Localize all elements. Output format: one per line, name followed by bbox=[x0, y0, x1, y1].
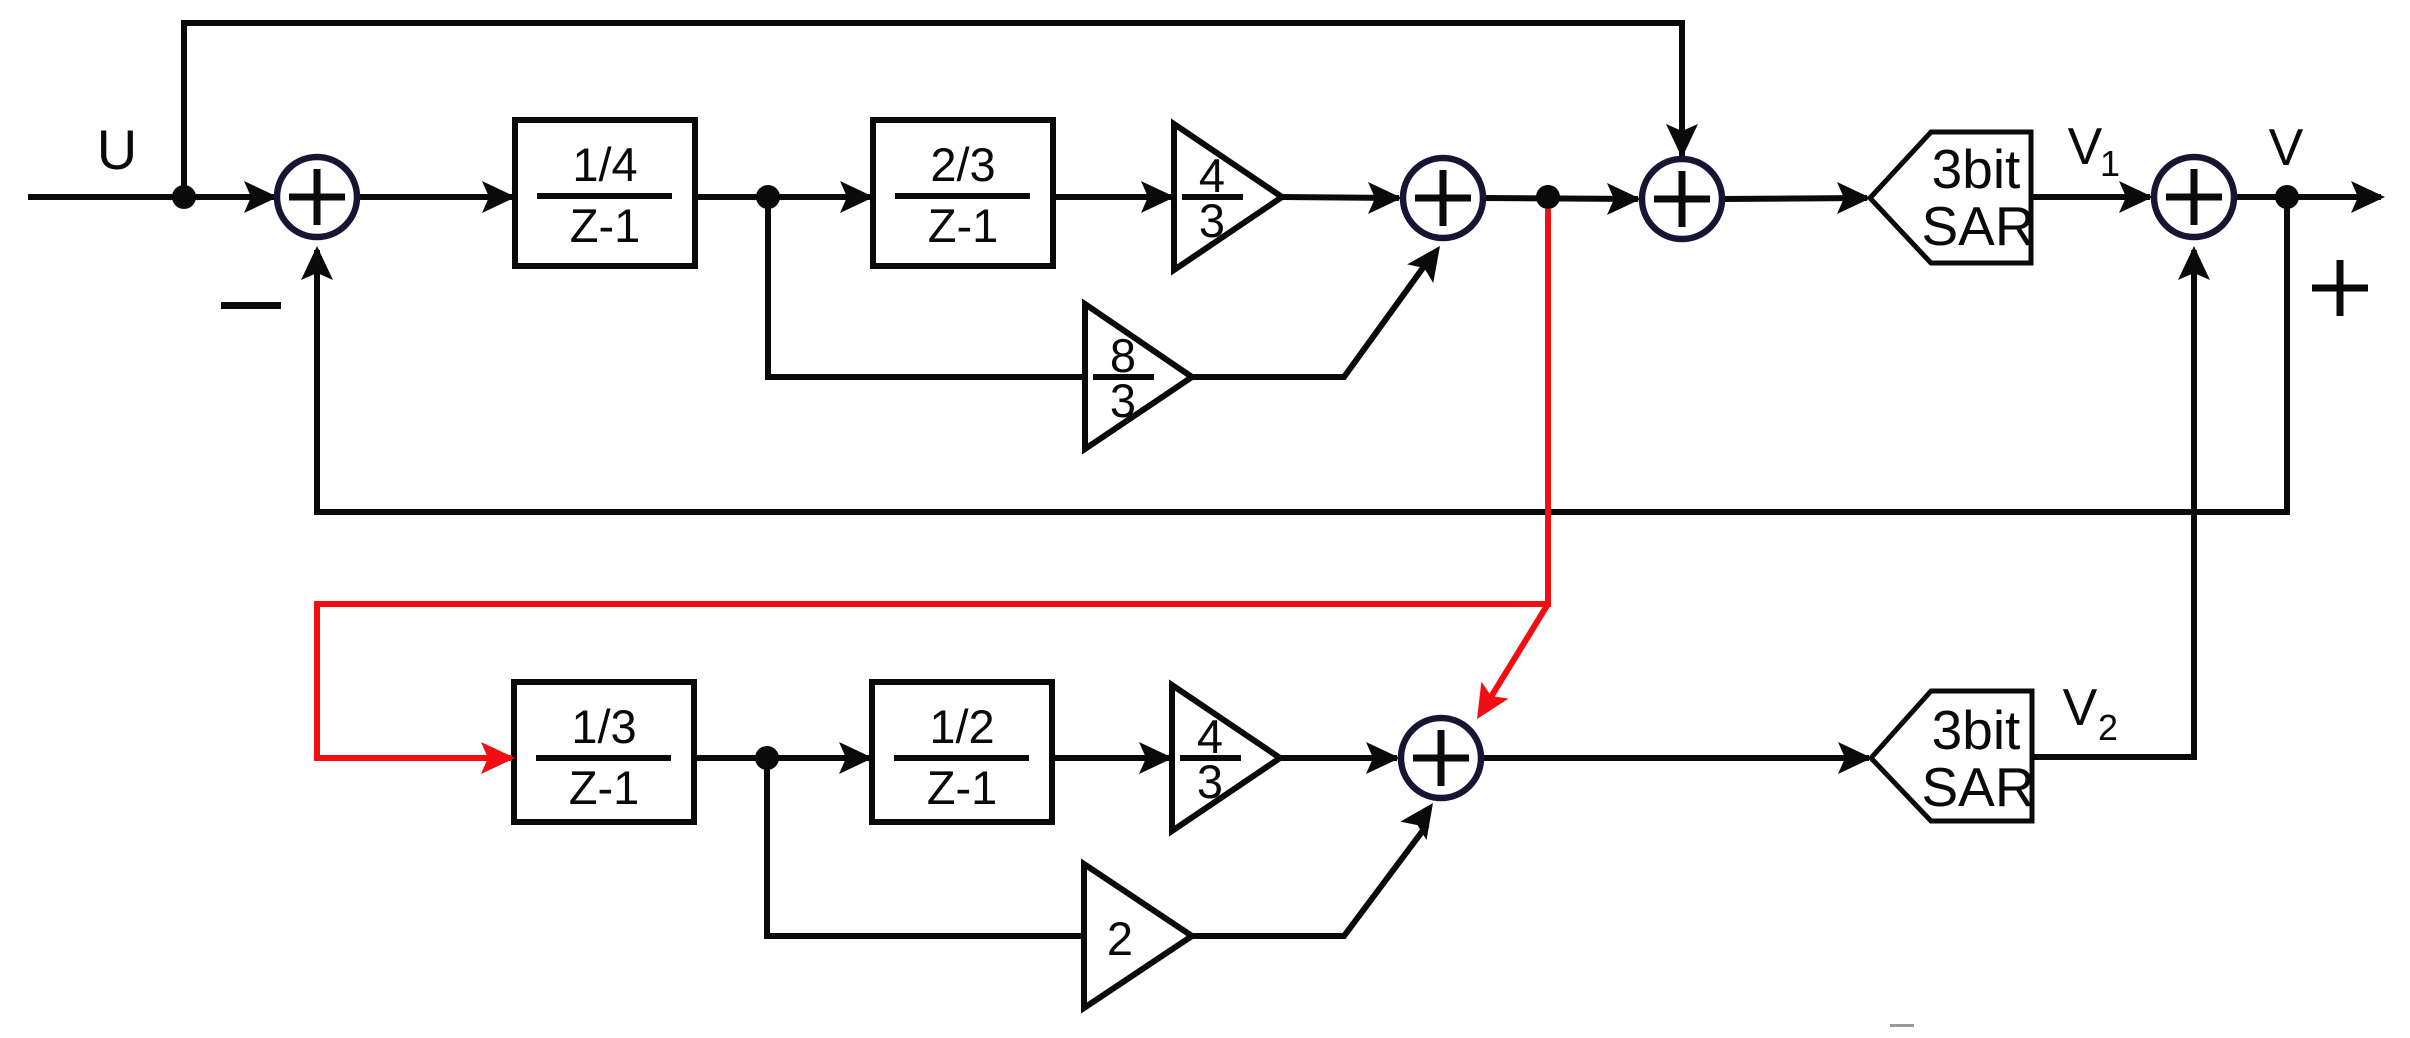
arrowhead into G3 bbox=[1139, 742, 1173, 774]
svg-text:V: V bbox=[2269, 119, 2304, 177]
wire: input U bbox=[28, 194, 279, 200]
arrowhead into Q1 bbox=[1837, 182, 1871, 214]
wire: V output feedback node C to summer S1 bbox=[317, 197, 2287, 512]
summer S1 bbox=[277, 157, 357, 237]
gain G3 4/3 triangle lower bbox=[1172, 685, 1280, 831]
arrowhead into B1 bbox=[482, 181, 516, 213]
svg-text:Z-1: Z-1 bbox=[927, 761, 998, 814]
label V1 bbox=[2068, 118, 2120, 184]
wire: Q1 to summer S4 bbox=[2031, 194, 2150, 200]
wire: S5 to quantizer Q2 bbox=[1480, 755, 1869, 761]
arrowhead red into B3 bbox=[481, 742, 515, 774]
quantizer Q2 3bit SAR bbox=[1871, 691, 2035, 821]
wire: G2 to summer S2 diagonal bbox=[1192, 265, 1425, 377]
summer S5 bbox=[1401, 718, 1481, 798]
svg-text:2: 2 bbox=[1107, 912, 1133, 965]
wire: S1 to block B1 bbox=[356, 194, 512, 200]
svg-text:V: V bbox=[2068, 118, 2103, 176]
block B4 1/2 over Z-1 bbox=[872, 682, 1052, 822]
node D after B3 bbox=[755, 746, 779, 770]
svg-text:Z-1: Z-1 bbox=[928, 199, 999, 252]
wire: B1 to node A to block B2 bbox=[695, 194, 870, 200]
artifact: grey dash bottom bbox=[1890, 1024, 1914, 1027]
node C output V bbox=[2275, 185, 2299, 209]
arrowhead red diagonal into S5 top bbox=[1463, 682, 1508, 728]
arrowhead up into S1 bottom bbox=[301, 246, 333, 280]
arrowhead diagonal into S2 bottom bbox=[1407, 237, 1453, 283]
gain G1 4/3 triangle bbox=[1174, 124, 1282, 270]
arrowhead into S5 bbox=[1366, 742, 1400, 774]
wire: B4 to gain G3 bbox=[1052, 755, 1169, 761]
svg-text:U: U bbox=[97, 118, 137, 181]
svg-text:1/2: 1/2 bbox=[929, 700, 994, 753]
arrowhead down into S3 top bbox=[1666, 124, 1698, 158]
quantizer Q1 3bit SAR bbox=[1870, 132, 2035, 263]
arrowhead into S3 bbox=[1607, 183, 1641, 215]
svg-text:3bit: 3bit bbox=[1932, 138, 2021, 200]
wire: branch node A down to gain G2 bbox=[768, 197, 1082, 377]
label V2 bbox=[2063, 679, 2118, 748]
svg-text:Z-1: Z-1 bbox=[570, 199, 641, 252]
arrowhead into Q2 bbox=[1838, 742, 1872, 774]
wire: top feedforward U to summer S3 bbox=[184, 23, 1682, 197]
svg-text:V: V bbox=[2063, 679, 2098, 737]
node B after S2 bbox=[1536, 185, 1560, 209]
gain G2 8/3 triangle bbox=[1085, 304, 1192, 449]
svg-text:2/3: 2/3 bbox=[930, 138, 995, 191]
arrowhead into S4 bbox=[2119, 181, 2153, 213]
wire: S4 to node C and output arrow bbox=[2233, 194, 2381, 200]
arrowhead up into S4 bottom bbox=[2178, 246, 2210, 280]
svg-text:3bit: 3bit bbox=[1932, 699, 2021, 761]
svg-text:1/3: 1/3 bbox=[571, 700, 636, 753]
svg-text:2: 2 bbox=[2098, 707, 2118, 748]
wire: S3 to quantizer Q1 bbox=[1721, 198, 1867, 199]
wire: B2 to gain G1 bbox=[1053, 194, 1171, 200]
arrowhead into B2 bbox=[840, 181, 874, 213]
svg-text:3: 3 bbox=[1199, 194, 1225, 247]
svg-text:1: 1 bbox=[2100, 143, 2120, 184]
arrowhead into S1 bbox=[244, 181, 278, 213]
label: minus sign at S1 bbox=[221, 302, 281, 309]
summer S2 bbox=[1403, 158, 1483, 238]
wire: branch node D down to gain G4 bbox=[767, 758, 1081, 936]
block B3 1/3 over Z-1 bbox=[514, 682, 694, 822]
arrowhead diagonal into S5 bottom bbox=[1400, 794, 1446, 840]
svg-text:3: 3 bbox=[1197, 755, 1223, 808]
label: plus sign at S4 output bbox=[2312, 260, 2368, 316]
wire: Q2 output V2 feedback up to summer S4 bbox=[2032, 250, 2194, 757]
arrowhead into G1 bbox=[1141, 181, 1175, 213]
svg-text:1/4: 1/4 bbox=[572, 138, 637, 191]
wire: G4 to summer S5 diagonal bbox=[1192, 825, 1427, 936]
node A after B1 bbox=[756, 185, 780, 209]
wire red: node B down, to stage 2 input and to summer S5 bbox=[317, 209, 1548, 758]
block B2 2/3 over Z-1 bbox=[873, 120, 1053, 266]
node: input junction bbox=[172, 185, 196, 209]
wire: node D to block B4 bbox=[694, 755, 869, 761]
summer S4 bbox=[2154, 157, 2234, 237]
block B1 1/4 over Z-1 bbox=[515, 120, 695, 266]
wire: G3 to summer S5 bbox=[1280, 755, 1397, 761]
svg-text:3: 3 bbox=[1110, 374, 1136, 427]
gain G4 2 triangle bbox=[1084, 864, 1192, 1008]
summer S3 bbox=[1642, 159, 1722, 239]
wire: S2 to node B to summer S3 bbox=[1482, 198, 1638, 199]
arrowhead output V bbox=[2351, 181, 2385, 213]
wire: G1 to summer S2 bbox=[1282, 197, 1399, 198]
svg-text:Z-1: Z-1 bbox=[569, 761, 640, 814]
arrowhead into B4 bbox=[839, 742, 873, 774]
svg-text:SAR: SAR bbox=[1921, 756, 2034, 818]
arrowhead into S2 bbox=[1368, 182, 1402, 214]
svg-text:SAR: SAR bbox=[1921, 195, 2034, 257]
